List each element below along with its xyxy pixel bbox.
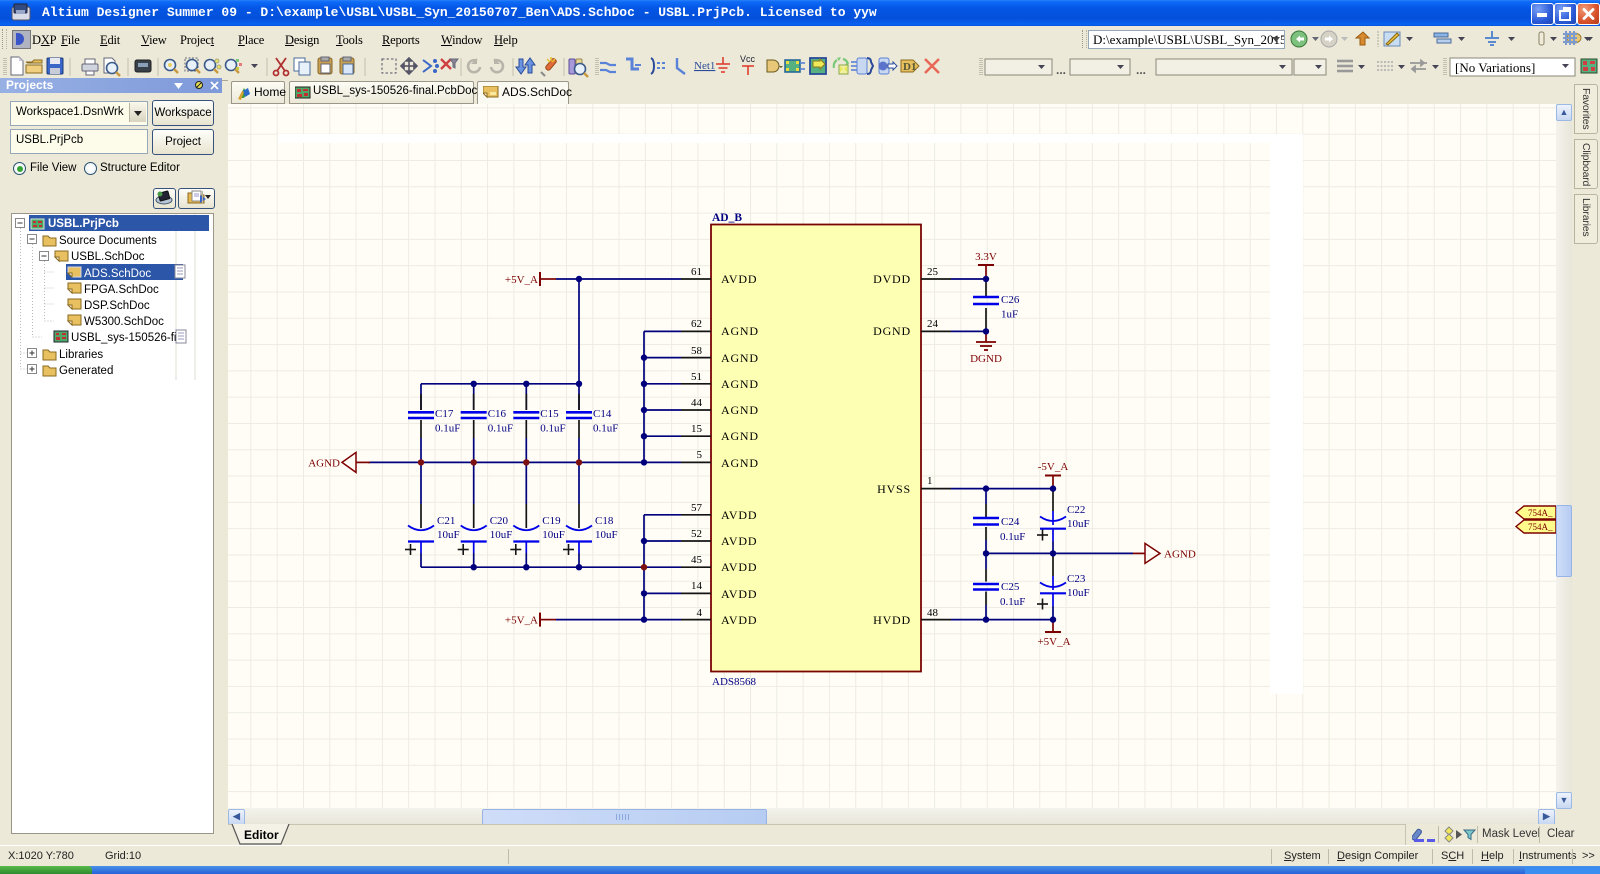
svg-text:4: 4	[697, 607, 703, 619]
svg-text:-5V_A: -5V_A	[1038, 461, 1069, 473]
junction dots (navy)	[471, 276, 1057, 623]
wire pin 1 HVSS to -5V_A	[951, 488, 1053, 490]
capacitor C20 polarized	[458, 462, 513, 567]
row10	[28, 365, 37, 374]
svg-text:C14: C14	[593, 408, 612, 420]
svg-text:DSP.SchDoc: DSP.SchDoc	[84, 300, 150, 312]
svg-text:10uF: 10uF	[595, 529, 618, 541]
power port 3.3V	[975, 251, 997, 279]
svg-text:AVDD: AVDD	[721, 587, 757, 601]
pin names right column	[873, 272, 911, 627]
capacitor C17	[408, 384, 460, 463]
node 754A_2 sheet entry tag	[1516, 520, 1556, 533]
pin numbers right	[927, 266, 939, 619]
svg-text:D1: D1	[903, 61, 916, 73]
svg-text:Libraries: Libraries	[59, 349, 103, 361]
svg-text:754A_: 754A_	[1528, 508, 1553, 518]
wire top capacitor bus	[421, 383, 579, 385]
svg-text:HVSS: HVSS	[877, 482, 911, 496]
svg-text:10uF: 10uF	[490, 529, 513, 541]
wire AVDD vertical bus to pins 57-4	[644, 515, 681, 620]
port AGND (right)	[1133, 543, 1196, 563]
svg-text:62: 62	[691, 318, 702, 330]
power port +5V_A (bottom right)	[1037, 620, 1070, 648]
svg-text:AVDD: AVDD	[721, 534, 757, 548]
svg-text:45: 45	[691, 554, 703, 566]
svg-text:AD_B: AD_B	[712, 212, 742, 224]
wire vertical +5V_A drop to cap bus	[578, 279, 580, 384]
svg-text:C26: C26	[1001, 294, 1020, 306]
svg-text:15: 15	[691, 423, 703, 435]
svg-text:0.1uF: 0.1uF	[435, 423, 460, 435]
svg-text:C25: C25	[1001, 581, 1020, 593]
svg-text:24: 24	[927, 318, 939, 330]
row4 selected	[66, 264, 183, 280]
status bar	[0, 845, 1600, 867]
ground DGND	[970, 331, 1002, 365]
right vertical tab strip	[1572, 80, 1600, 830]
svg-text:AGND: AGND	[721, 377, 759, 391]
svg-text:AVDD: AVDD	[721, 613, 757, 627]
svg-text:25: 25	[927, 266, 939, 278]
svg-text:0.1uF: 0.1uF	[1000, 596, 1025, 608]
capacitor C14	[566, 384, 618, 463]
wire AGND mid bus (right)	[986, 552, 1133, 554]
svg-text:DGND: DGND	[873, 324, 911, 338]
svg-text:USBL_sys-150526-fir: USBL_sys-150526-fir	[71, 332, 180, 344]
capacitor C25	[973, 553, 1025, 619]
svg-text:10uF: 10uF	[542, 529, 565, 541]
row3	[40, 252, 49, 261]
svg-text:C18: C18	[595, 515, 614, 527]
svg-text:ADS.SchDoc: ADS.SchDoc	[84, 268, 151, 280]
svg-text:FPGA.SchDoc: FPGA.SchDoc	[84, 284, 159, 296]
svg-text:Generated: Generated	[59, 365, 113, 377]
svg-text:...: ...	[1056, 63, 1066, 77]
svg-text:1uF: 1uF	[1001, 309, 1018, 321]
svg-text:AGND: AGND	[721, 324, 759, 338]
svg-text:44: 44	[691, 397, 703, 409]
svg-text:DGND: DGND	[970, 353, 1002, 365]
taskbar	[0, 866, 1600, 874]
row9	[28, 349, 37, 358]
svg-text:C20: C20	[490, 515, 509, 527]
row5-7	[68, 283, 81, 293]
capacitor C15	[513, 384, 565, 463]
op-amp U1 : ADS8568 ADC body	[711, 225, 921, 672]
svg-text:C17: C17	[435, 408, 454, 420]
row8	[54, 331, 68, 342]
svg-text:...: ...	[1136, 63, 1146, 77]
capacitor C23 polarized	[1037, 553, 1090, 619]
svg-text:48: 48	[927, 607, 939, 619]
svg-text:0.1uF: 0.1uF	[593, 423, 618, 435]
vertical scrollbar	[1556, 104, 1572, 808]
row1 selected	[29, 215, 209, 231]
svg-text:W5300.SchDoc: W5300.SchDoc	[84, 316, 164, 328]
capacitor C26	[973, 279, 1020, 331]
capacitor C16	[461, 384, 513, 463]
svg-text:10uF: 10uF	[1067, 518, 1090, 530]
svg-text:Source Documents: Source Documents	[59, 235, 157, 247]
wire bottom capacitor bus	[421, 566, 644, 568]
pin numbers left	[691, 266, 703, 619]
power port +5V_A (bottom left)	[505, 613, 556, 627]
capacitor C18 polarized	[563, 462, 618, 567]
wire pin 24 DGND	[951, 330, 986, 332]
svg-text:DVDD: DVDD	[873, 272, 911, 286]
svg-text:HVDD: HVDD	[873, 613, 911, 627]
svg-text:AGND: AGND	[721, 351, 759, 365]
svg-text:3.3V: 3.3V	[975, 251, 997, 263]
svg-text:+5V_A: +5V_A	[505, 615, 538, 627]
svg-text:[No Variations]: [No Variations]	[1455, 60, 1535, 75]
svg-text:USBL.PrjPcb: USBL.PrjPcb	[48, 218, 119, 230]
svg-text:58: 58	[691, 345, 703, 357]
svg-text:C16: C16	[488, 408, 507, 420]
pin stubs right (black)	[921, 279, 951, 620]
svg-text:5: 5	[697, 449, 703, 461]
svg-text:AGND: AGND	[721, 429, 759, 443]
designator AD_B	[712, 212, 742, 224]
svg-text:AGND: AGND	[721, 403, 759, 417]
wire pin 48 HVDD bus	[951, 619, 1053, 621]
power port -5V_A	[1038, 461, 1069, 489]
svg-text:AGND: AGND	[721, 456, 759, 470]
wire AGND vertical bus to pins 62-5	[644, 331, 681, 462]
power port +5V_A (top left)	[505, 272, 556, 286]
row2	[28, 235, 37, 244]
svg-text:C22: C22	[1067, 504, 1085, 516]
wire pin 25 DVDD to 3.3V	[951, 278, 986, 280]
svg-text:C24: C24	[1001, 516, 1020, 528]
svg-text:0.1uF: 0.1uF	[1000, 531, 1025, 543]
svg-text:C15: C15	[540, 408, 559, 420]
svg-text:61: 61	[691, 266, 702, 278]
svg-text:52: 52	[691, 528, 702, 540]
pin stubs left (black)	[681, 279, 711, 620]
svg-text:10uF: 10uF	[1067, 587, 1090, 599]
horizontal scrollbar	[228, 808, 1556, 824]
svg-text:C21: C21	[437, 515, 455, 527]
svg-text:AVDD: AVDD	[721, 508, 757, 522]
svg-text:AVDD: AVDD	[721, 272, 757, 286]
svg-text:1: 1	[927, 475, 933, 487]
capacitor C19 polarized	[510, 462, 565, 567]
svg-text:USBL.SchDoc: USBL.SchDoc	[71, 251, 145, 263]
svg-text:+5V_A: +5V_A	[505, 274, 538, 286]
wire AGND net bus (left)	[368, 461, 681, 463]
wire +5V_A to pin 61	[556, 278, 681, 280]
svg-text:AGND: AGND	[308, 458, 340, 470]
svg-text:ADS8568: ADS8568	[712, 676, 757, 688]
wire +5V_A to pin 4	[556, 619, 681, 621]
svg-text:C23: C23	[1067, 573, 1086, 585]
svg-text:Net1: Net1	[694, 60, 715, 72]
svg-text:Editor: Editor	[244, 828, 279, 842]
value label ADS8568	[712, 676, 757, 688]
node 754A_1 sheet entry tag	[1516, 506, 1556, 519]
svg-text:AVDD: AVDD	[721, 560, 757, 574]
pin names left column	[721, 272, 759, 627]
svg-text:754A_: 754A_	[1528, 522, 1553, 532]
port AGND (left)	[308, 452, 370, 472]
svg-text:14: 14	[691, 580, 703, 592]
capacitor C22 polarized	[1037, 489, 1090, 554]
junction dots (red)	[418, 459, 647, 570]
svg-text:10uF: 10uF	[437, 529, 460, 541]
svg-text:0.1uF: 0.1uF	[488, 423, 513, 435]
svg-text:51: 51	[691, 371, 702, 383]
capacitor C24	[973, 489, 1025, 554]
editor tab row	[228, 824, 1600, 846]
svg-text:+5V_A: +5V_A	[1037, 636, 1070, 648]
svg-text:0.1uF: 0.1uF	[540, 423, 565, 435]
svg-text:C19: C19	[542, 515, 561, 527]
svg-text:57: 57	[691, 502, 703, 514]
capacitor C21 polarized	[405, 462, 460, 567]
svg-text:Vcc: Vcc	[740, 54, 756, 64]
svg-text:AGND: AGND	[1164, 549, 1196, 561]
